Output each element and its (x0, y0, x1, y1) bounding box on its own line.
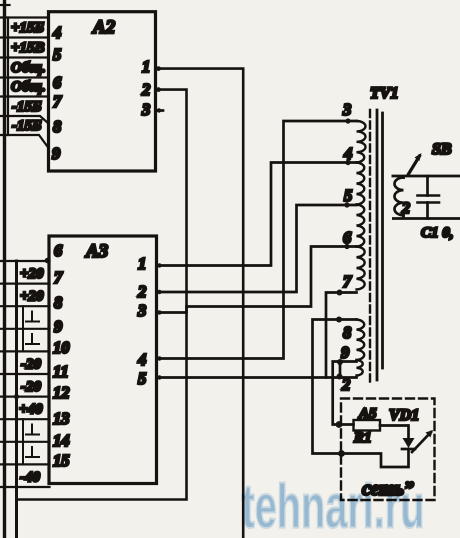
wire top tick (0, 4, 10, 6)
transformer core solid lines (376, 110, 379, 380)
wire A2 label-box left edge (7, 18, 9, 136)
node tap6 dot (344, 244, 349, 249)
svg-text:SB: SB (432, 141, 452, 158)
svg-text:1: 1 (142, 57, 150, 76)
wire tap 8 lead and long drop to mains node (313, 320, 409, 468)
op-amp block A3 (49, 236, 157, 484)
svg-text:3: 3 (342, 100, 351, 119)
svg-text:VD1: VD1 (389, 407, 419, 424)
ground symbol row8 (31, 425, 33, 435)
transformer TV1 primary winding (357, 121, 366, 376)
diode arrow (412, 432, 431, 452)
node A3 pin4 (157, 356, 161, 360)
wire A2 label row separators (0, 18, 49, 149)
wire A2 pin1 to long dropper (156, 69, 244, 538)
node tap5 dot (344, 202, 349, 207)
svg-text:2: 2 (341, 375, 350, 394)
svg-text:Общ.: Общ. (11, 79, 46, 95)
dashed enclosure A5 (mains unit) (341, 399, 435, 501)
node A3 pin1 (157, 263, 161, 267)
svg-text:+40: +40 (19, 402, 43, 418)
svg-text:-40: -40 (20, 470, 40, 486)
svg-text:7: 7 (343, 272, 352, 291)
svg-text:7: 7 (54, 268, 63, 287)
svg-text:4: 4 (343, 144, 352, 163)
svg-text:9: 9 (52, 144, 60, 163)
node A3 pin6 lead dot (45, 258, 51, 264)
A2 left pin numbers (52, 23, 62, 163)
svg-text:А2: А2 (92, 17, 116, 38)
node R1 input dot (336, 421, 343, 428)
wire indented ground-box edges (22, 306, 24, 464)
svg-text:+15В: +15В (11, 40, 45, 56)
switch SB lever (409, 156, 420, 174)
wire A3 pin4 to transformer tap 3 (157, 121, 357, 359)
svg-text:-20: -20 (21, 379, 41, 395)
A3 left pin numbers (53, 241, 70, 470)
node A3 pin2 (157, 290, 161, 294)
wire R1 output to diode (380, 426, 409, 439)
node tap9 dot (337, 359, 343, 365)
node tap8 dot (336, 317, 342, 323)
wire A3 label-box left edge vertical (15, 261, 18, 538)
A3 right pin numbers (137, 254, 146, 388)
svg-text:+20: +20 (20, 289, 44, 305)
resistor R1 (354, 420, 381, 431)
wire tap 7 down to pin5 line (326, 293, 357, 378)
svg-text:13: 13 (53, 409, 70, 428)
net labels A3 rows (19, 266, 44, 486)
svg-text:tehnari.ru: tehnari.ru (242, 473, 425, 538)
diode VD1 (403, 438, 415, 448)
wire secondary bottom rail (392, 215, 460, 218)
wire stub tap9 to bottom lead (339, 362, 342, 377)
wire A2 pin2 dropper and bottom return (17, 90, 187, 500)
svg-text:+20: +20 (20, 266, 44, 282)
transformer tap numbers (341, 100, 352, 394)
svg-text:14: 14 (53, 431, 70, 450)
node tap7 dot (337, 290, 343, 296)
node A3 pin5 (157, 375, 161, 379)
svg-text:2: 2 (137, 282, 146, 301)
transformer core dashed screen (369, 110, 371, 382)
node A2 pin1 (156, 66, 161, 71)
svg-text:6: 6 (53, 73, 62, 92)
wire A3 label row separators (0, 261, 50, 487)
svg-text:11: 11 (53, 362, 69, 381)
wire left bus vertical (3, 0, 6, 538)
svg-text:-15Б: -15Б (12, 99, 42, 115)
wire A2 pin3 stub (156, 109, 164, 112)
svg-text:9: 9 (341, 343, 349, 362)
watermark tehnari.ru (242, 473, 425, 538)
svg-text:7: 7 (53, 92, 62, 111)
svg-text:4: 4 (137, 350, 146, 369)
node A3 pin3 (157, 310, 161, 314)
ground symbol row3 (26, 312, 39, 458)
svg-text:4: 4 (52, 23, 61, 42)
op-amp block A2 (49, 12, 156, 171)
wire A3 pin2 to transformer tap 5 (157, 205, 357, 292)
node tap4 dot (345, 160, 350, 165)
wire A3 pin5 to transformer winding bottom (157, 376, 357, 379)
svg-text:-20: -20 (21, 357, 41, 373)
svg-text:5: 5 (138, 369, 146, 388)
svg-text:А3: А3 (85, 241, 108, 262)
wire secondary top rail (392, 176, 460, 178)
svg-text:Общ.: Общ. (11, 60, 46, 76)
wire A3 pin3 jog to transformer tap 6 (157, 247, 357, 313)
svg-text:15: 15 (53, 451, 70, 470)
node A2 pin2 (156, 87, 161, 92)
net labels A2 rows (11, 20, 46, 134)
svg-text:2: 2 (401, 200, 410, 217)
svg-text:3: 3 (137, 301, 146, 320)
svg-text:8: 8 (343, 323, 351, 342)
wire A3 pin1 to transformer tap 4 (157, 163, 357, 266)
svg-text:6: 6 (343, 228, 352, 247)
node bottom lead dot (337, 374, 343, 380)
svg-text:TV1: TV1 (370, 85, 398, 102)
node tap3 dot (345, 118, 350, 123)
transformer secondary winding (SB side) (394, 178, 403, 216)
svg-text:R1: R1 (353, 430, 372, 446)
svg-text:+15Б: +15Б (11, 20, 45, 36)
node A2 pin3 (157, 108, 161, 112)
wire tap 9 lead down to resistor R1 (333, 362, 357, 425)
ground symbol row4 (31, 334, 33, 344)
svg-text:8: 8 (53, 117, 61, 136)
svg-text:А5: А5 (358, 406, 377, 422)
svg-text:1: 1 (138, 254, 146, 273)
svg-text:8: 8 (54, 293, 62, 312)
svg-text:-15Б: -15Б (12, 118, 42, 134)
node junction on A3 label bus (14, 394, 19, 399)
svg-text:С1 0,: С1 0, (421, 225, 454, 241)
ground symbol row9 (31, 447, 33, 457)
svg-text:3: 3 (141, 100, 150, 119)
capacitor C1 (426, 176, 429, 196)
A2 right pin numbers (141, 57, 150, 119)
svg-text:9: 9 (54, 317, 62, 336)
svg-text:5: 5 (344, 186, 352, 205)
svg-text:12: 12 (53, 383, 70, 402)
svg-text:2: 2 (141, 80, 150, 99)
node mains line dot (338, 450, 345, 457)
svg-text:5: 5 (53, 45, 61, 64)
svg-text:10: 10 (53, 338, 70, 357)
svg-text:6: 6 (54, 241, 63, 260)
